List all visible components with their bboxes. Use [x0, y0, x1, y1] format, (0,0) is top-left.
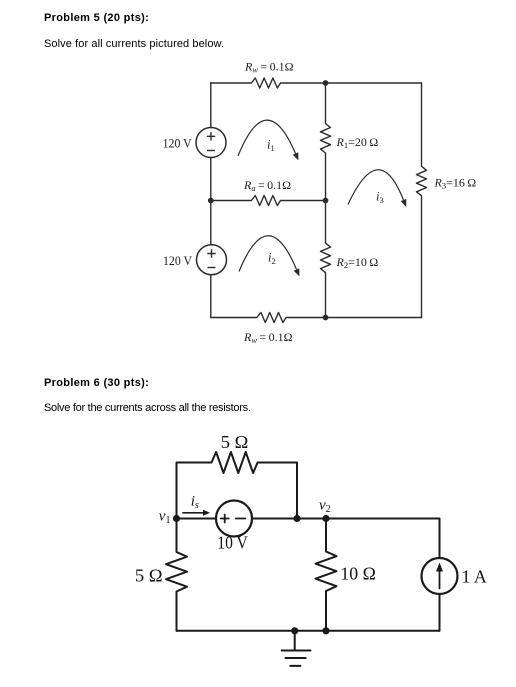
svg-text:10 Ω: 10 Ω — [340, 564, 375, 584]
svg-text:Rw = 0.1Ω: Rw = 0.1Ω — [244, 60, 294, 75]
svg-text:Rw = 0.1Ω: Rw = 0.1Ω — [243, 330, 293, 345]
svg-text:is: is — [191, 494, 199, 512]
svg-text:5 Ω: 5 Ω — [221, 432, 249, 452]
svg-text:R3=16 Ω: R3=16 Ω — [434, 176, 477, 191]
svg-text:120 V: 120 V — [163, 254, 192, 268]
svg-text:R2=10 Ω: R2=10 Ω — [336, 255, 379, 270]
svg-text:i3: i3 — [376, 190, 384, 206]
svg-text:Ra = 0.1Ω: Ra = 0.1Ω — [243, 178, 291, 193]
svg-text:i2: i2 — [268, 251, 276, 267]
svg-text:R1=20 Ω: R1=20 Ω — [336, 135, 379, 150]
svg-text:v1: v1 — [159, 509, 171, 527]
svg-text:1 A: 1 A — [462, 567, 487, 587]
svg-text:120 V: 120 V — [163, 136, 192, 150]
svg-text:10 V: 10 V — [217, 532, 248, 552]
svg-text:v2: v2 — [319, 498, 331, 516]
svg-text:i1: i1 — [267, 138, 275, 154]
svg-text:5 Ω: 5 Ω — [135, 566, 163, 586]
